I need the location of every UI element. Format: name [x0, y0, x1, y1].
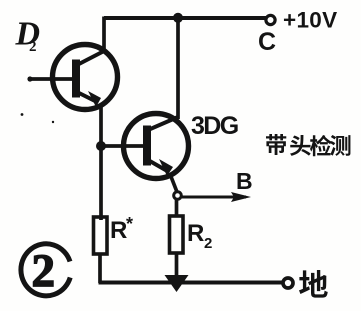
transistor Q2 emitter lead	[148, 160, 169, 172]
wire Q1 emitter to node A	[99, 104, 103, 220]
transistor Q1 circle	[53, 45, 118, 110]
svg-text:C: C	[258, 28, 276, 56]
wire T1 collector riser	[102, 17, 106, 52]
label text "带"	[266, 134, 286, 155]
transistor Q1 base lead	[28, 77, 72, 81]
transistor Q1 emitter lead	[77, 92, 97, 102]
wire R2 to ground rail	[175, 253, 179, 282]
wire T2 collector riser	[176, 18, 180, 119]
wire R1 to ground rail	[98, 254, 102, 283]
terminal +10V	[266, 15, 275, 24]
transistor Q1 collector lead	[77, 50, 106, 65]
svg-text:2: 2	[204, 235, 212, 252]
transistor Q1 base bar	[72, 60, 80, 98]
svg-text:2: 2	[29, 39, 37, 55]
junction dot top rail node	[173, 13, 183, 23]
wire Q2 base lead	[101, 144, 144, 148]
transistor Q1 emitter arrowhead	[88, 91, 101, 107]
label text "头"	[290, 135, 311, 156]
wire Q2 emitter to node B	[170, 174, 177, 192]
transistor Q2 collector lead	[148, 117, 178, 130]
arrowhead B output	[231, 192, 251, 202]
resistor R1 body	[94, 217, 108, 254]
svg-text:3DG: 3DG	[191, 112, 238, 140]
svg-text:2: 2	[32, 245, 56, 297]
wire node B to R2	[175, 199, 179, 217]
svg-text:R: R	[187, 220, 204, 247]
transistor Q2 base bar	[143, 126, 151, 166]
svg-text:B: B	[236, 168, 253, 194]
svg-text:*: *	[126, 214, 133, 234]
speck	[52, 121, 54, 123]
terminal ground	[283, 278, 293, 288]
wire B output arrow line	[182, 196, 246, 199]
figure number 2 circle	[21, 244, 70, 296]
junction node B ring	[174, 192, 182, 200]
junction blob ground node	[165, 275, 189, 292]
speck	[21, 113, 24, 116]
label text "检"	[310, 135, 331, 156]
svg-text:R: R	[110, 217, 127, 244]
transistor Q2 emitter arrowhead	[159, 159, 173, 176]
label text "测"	[330, 135, 350, 156]
label text "地"	[299, 270, 328, 298]
junction dot node A	[96, 141, 106, 151]
svg-text:+10V: +10V	[283, 8, 337, 33]
transistor Q2 circle	[124, 114, 189, 179]
resistor R2 body	[170, 216, 184, 253]
wire bottom ground rail	[99, 281, 285, 285]
wire top supply rail	[104, 16, 266, 20]
